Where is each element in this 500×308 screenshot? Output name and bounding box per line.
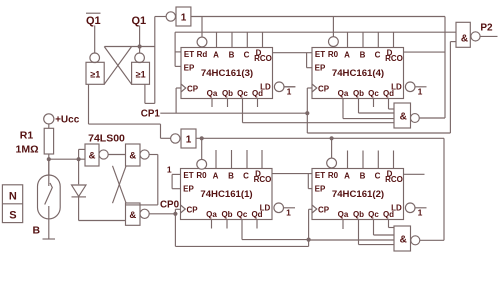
svg-text:1: 1	[167, 164, 172, 174]
svg-text:EP: EP	[184, 64, 195, 73]
svg-text:LD: LD	[391, 204, 402, 213]
svg-text:CP: CP	[187, 85, 199, 94]
svg-text:P2: P2	[480, 23, 493, 34]
svg-text:B: B	[229, 51, 235, 60]
svg-text:CP: CP	[318, 85, 330, 94]
svg-text:1MΩ: 1MΩ	[15, 144, 38, 156]
svg-text:A: A	[213, 51, 219, 60]
svg-text:CP: CP	[186, 206, 198, 215]
svg-text:ET: ET	[315, 171, 325, 180]
svg-text:A: A	[344, 51, 350, 60]
svg-text:&: &	[129, 151, 136, 162]
svg-text:ET: ET	[184, 50, 194, 59]
svg-text:RCO: RCO	[385, 175, 403, 184]
svg-text:R0: R0	[328, 50, 339, 59]
svg-text:Qa: Qa	[207, 89, 218, 98]
svg-text:Q1: Q1	[86, 15, 101, 27]
svg-text:74HC161(1): 74HC161(1)	[200, 189, 252, 200]
svg-text:74HC161(2): 74HC161(2)	[332, 189, 384, 200]
svg-text:CP: CP	[318, 206, 330, 215]
svg-text:RCO: RCO	[254, 54, 272, 63]
svg-text:ET: ET	[183, 171, 193, 180]
svg-text:≥1: ≥1	[90, 70, 100, 80]
svg-text:B: B	[360, 51, 366, 60]
svg-text:R1: R1	[20, 130, 34, 142]
svg-text:&: &	[129, 210, 136, 221]
svg-text:1: 1	[186, 135, 192, 146]
svg-text:C: C	[243, 172, 249, 181]
svg-text:CP0: CP0	[160, 199, 180, 210]
svg-text:ET: ET	[315, 50, 325, 59]
svg-text:LD: LD	[260, 83, 271, 92]
svg-text:1: 1	[181, 13, 187, 24]
svg-text:Q1: Q1	[131, 15, 146, 27]
svg-text:A: A	[213, 172, 219, 181]
svg-text:Rd: Rd	[197, 50, 208, 59]
svg-text:C: C	[244, 51, 250, 60]
svg-text:+Ucc: +Ucc	[55, 115, 80, 126]
svg-text:1: 1	[286, 208, 291, 218]
svg-text:A: A	[344, 172, 350, 181]
svg-text:Qa: Qa	[338, 210, 349, 219]
svg-text:&: &	[400, 235, 407, 246]
svg-text:B: B	[228, 172, 234, 181]
svg-text:Qc: Qc	[368, 89, 379, 98]
svg-text:Qc: Qc	[237, 89, 248, 98]
svg-text:1: 1	[287, 87, 292, 97]
svg-text:S: S	[9, 210, 16, 222]
svg-text:N: N	[9, 191, 17, 203]
svg-text:Qb: Qb	[222, 89, 233, 98]
svg-text:Qa: Qa	[206, 210, 217, 219]
svg-text:&: &	[400, 112, 407, 123]
svg-text:EP: EP	[183, 185, 194, 194]
svg-text:B: B	[360, 172, 366, 181]
svg-text:&: &	[89, 151, 96, 162]
svg-text:R0: R0	[328, 171, 339, 180]
svg-text:&: &	[461, 34, 468, 45]
svg-text:EP: EP	[315, 185, 326, 194]
svg-text:≥1: ≥1	[136, 70, 146, 80]
svg-text:Qc: Qc	[368, 210, 379, 219]
svg-text:74LS00: 74LS00	[88, 133, 125, 145]
svg-text:LD: LD	[391, 83, 402, 92]
svg-text:Qb: Qb	[353, 89, 364, 98]
svg-text:Qa: Qa	[338, 89, 349, 98]
svg-text:1: 1	[418, 87, 423, 97]
svg-text:74HC161(4): 74HC161(4)	[332, 68, 384, 79]
svg-text:1: 1	[418, 208, 423, 218]
svg-text:CP1: CP1	[141, 109, 161, 120]
svg-text:EP: EP	[315, 64, 326, 73]
svg-text:LD: LD	[260, 204, 271, 213]
svg-text:RCO: RCO	[254, 175, 272, 184]
svg-text:B: B	[33, 225, 41, 237]
svg-text:Qc: Qc	[237, 210, 248, 219]
svg-text:R0: R0	[196, 171, 207, 180]
svg-text:C: C	[375, 51, 381, 60]
svg-text:Qb: Qb	[221, 210, 232, 219]
svg-text:Qb: Qb	[353, 210, 364, 219]
svg-text:RCO: RCO	[385, 54, 403, 63]
svg-text:74HC161(3): 74HC161(3)	[201, 68, 253, 79]
svg-text:C: C	[375, 172, 381, 181]
